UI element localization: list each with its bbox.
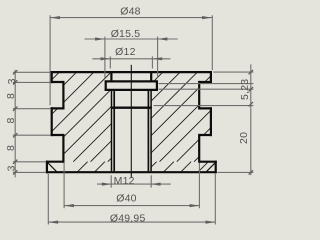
- internal thread M12: major diameter lines: [112, 90, 152, 171]
- svg-text:Ø48: Ø48: [120, 6, 140, 18]
- internal thread M12: minor diameter lines: [114, 90, 148, 171]
- dimension dia 48 (top): [50, 6, 212, 106]
- dimension dia 40 (groove diameter): [64, 163, 199, 208]
- bottom flange diameter edges: [47, 161, 216, 174]
- thread end edge: [111, 106, 152, 108]
- bottom flange left chamfer edge: [48, 163, 57, 172]
- svg-text:M12: M12: [114, 175, 135, 187]
- bore walls above counterbore: [111, 73, 151, 81]
- svg-text:3: 3: [6, 78, 18, 84]
- dimension dia 12 (bore): [92, 46, 170, 69]
- right profile step edges: [199, 82, 217, 162]
- svg-text:8: 8: [5, 117, 17, 123]
- dimension dia 15.5 (counterbore): [85, 28, 178, 77]
- svg-text:3: 3: [6, 165, 18, 171]
- right groove diameter edges: [198, 81, 200, 163]
- svg-text:Ø49,95: Ø49,95: [110, 212, 146, 224]
- dimension M12 thread callout: [97, 175, 171, 188]
- bottom flange right chamfer edge: [207, 163, 216, 172]
- svg-text:8: 8: [5, 93, 17, 99]
- left outer diameter edges (lands): [51, 71, 53, 136]
- right outer diameter edges (lands): [210, 71, 212, 136]
- left baseline chain dimension 3/8/8/8/3: [5, 70, 50, 177]
- svg-text:Ø40: Ø40: [116, 192, 136, 204]
- top face edge: [51, 71, 212, 73]
- dimension dia 49,95 (bottom flange): [48, 174, 215, 225]
- part outline: [46, 71, 217, 173]
- svg-text:Ø15.5: Ø15.5: [111, 28, 141, 40]
- svg-text:20: 20: [238, 132, 250, 144]
- left profile step edges: [46, 82, 64, 162]
- bottom flange washer hatching (separate part, shifted phase): [77, 162, 208, 173]
- left groove diameter edges: [62, 81, 64, 163]
- counterbore shoulder edges: [105, 81, 158, 90]
- bottom face edge: [46, 171, 217, 173]
- vertical centerline: [130, 65, 132, 178]
- svg-text:5,23: 5,23: [239, 79, 251, 100]
- svg-text:Ø12: Ø12: [115, 46, 135, 58]
- counterbore walls: [106, 81, 157, 90]
- right vertical dimensions 5,23 and 20: [154, 64, 254, 175]
- section hatching (45 deg cut lines over material region): [0, 60, 320, 162]
- svg-text:8: 8: [5, 145, 17, 151]
